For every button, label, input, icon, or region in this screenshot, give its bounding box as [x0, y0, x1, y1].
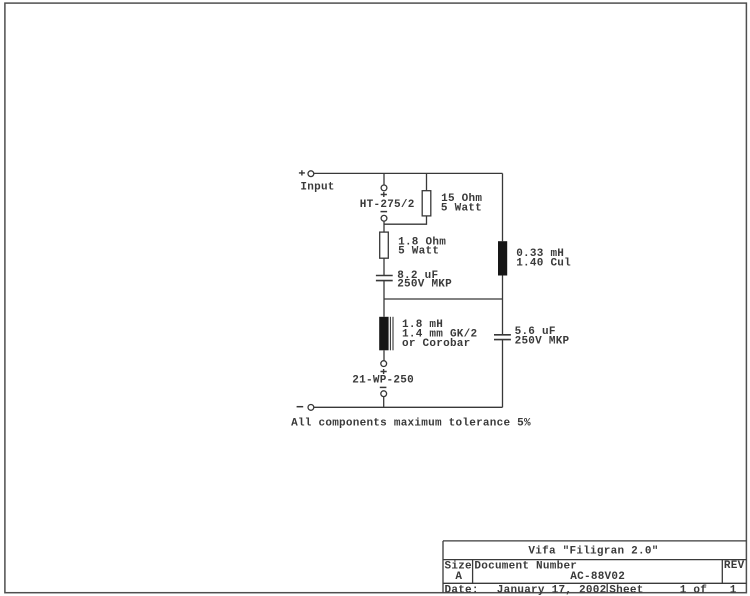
- svg-text:HT-275/2: HT-275/2: [360, 199, 415, 211]
- inductor L1 1.8 mH: [379, 317, 388, 351]
- svg-text:21-WP-250: 21-WP-250: [352, 374, 414, 386]
- svg-text:January 17, 2002: January 17, 2002: [497, 584, 607, 596]
- terminal circle tweeter plus: [381, 185, 387, 191]
- svg-text:5 Watt: 5 Watt: [398, 246, 439, 258]
- svg-text:Document Number: Document Number: [474, 561, 577, 573]
- title block frame: [443, 541, 746, 593]
- terminal circle input minus: [308, 405, 314, 411]
- wire L1 to woofer terminal: [383, 350, 385, 361]
- terminal minus input sign: [297, 406, 304, 408]
- resistor R1 15 Ohm: [422, 191, 431, 216]
- svg-text:1: 1: [730, 584, 737, 596]
- svg-text:1.40 Cul: 1.40 Cul: [516, 257, 571, 269]
- svg-text:Sheet: Sheet: [609, 584, 643, 596]
- wire between R2 and C1: [383, 258, 385, 275]
- capacitor C2 5.6 uF: [494, 335, 511, 340]
- svg-text:Input: Input: [300, 181, 334, 193]
- svg-text:1 of: 1 of: [680, 584, 708, 596]
- terminal circle woofer plus: [381, 361, 387, 367]
- svg-text:250V MKP: 250V MKP: [515, 336, 570, 348]
- capacitor C1 8.2 uF: [376, 276, 393, 281]
- wire top rail: [314, 172, 503, 174]
- wire mid rail node B: [384, 298, 503, 300]
- terminal circle woofer minus: [381, 391, 387, 397]
- wire 15 Ohm branch drop: [426, 173, 428, 190]
- wire tweeter branch drop: [383, 173, 385, 185]
- inductor L2 0.33 mH: [498, 241, 507, 275]
- inductor L1 core lines: [390, 317, 393, 351]
- wire right branch upper: [502, 173, 504, 241]
- resistor R2 1.8 Ohm: [380, 232, 389, 258]
- polarity minus woofer: [380, 386, 387, 388]
- terminal circle input: [308, 171, 314, 177]
- svg-text:REV: REV: [724, 560, 745, 572]
- svg-text:A: A: [455, 571, 462, 583]
- wire woofer minus to bottom rail: [383, 397, 385, 408]
- polarity plus tweeter: [381, 192, 387, 197]
- svg-text:5 Watt: 5 Watt: [441, 202, 482, 214]
- wire L2 to C2: [502, 276, 504, 335]
- svg-text:Date:: Date:: [445, 584, 479, 596]
- polarity plus woofer: [381, 369, 387, 374]
- svg-text:All components maximum toleran: All components maximum tolerance 5%: [291, 417, 531, 429]
- polarity minus tweeter: [381, 211, 388, 213]
- wire C2 to bottom rail: [502, 340, 504, 408]
- terminal + input positive: [299, 170, 305, 175]
- wire tweeter negative to node A: [384, 216, 427, 232]
- svg-text:AC-88V02: AC-88V02: [570, 571, 625, 583]
- svg-text:250V MKP: 250V MKP: [397, 279, 452, 291]
- wire bottom rail: [314, 406, 503, 408]
- svg-text:or Corobar: or Corobar: [402, 338, 471, 350]
- terminal circle tweeter minus: [381, 215, 387, 221]
- svg-text:Vifa "Filigran 2.0": Vifa "Filigran 2.0": [528, 545, 658, 557]
- wire C1 to L1: [383, 281, 385, 317]
